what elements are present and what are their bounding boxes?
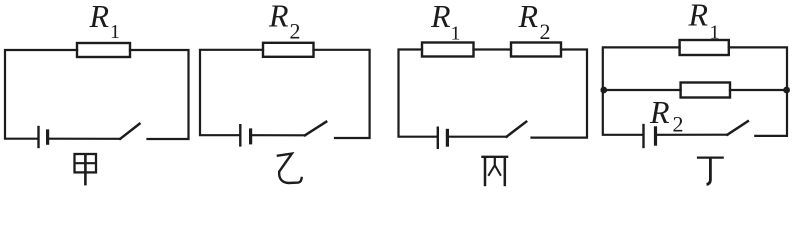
label ding (circuit4 caption) — [697, 158, 724, 185]
svg-text:R: R — [518, 0, 539, 34]
switch (circuit3) — [507, 122, 527, 137]
wire: circuit1 battery to switch pivot — [49, 138, 120, 140]
junction node right (circuit4) — [783, 87, 790, 94]
svg-text:R: R — [688, 0, 709, 33]
wire: circuit3 between resistors — [474, 48, 512, 50]
wire: circuit3 top-left + left side + bottom-left — [399, 50, 437, 137]
wire: circuit2 top-left + left side + bottom-left — [200, 50, 263, 135]
wire: circuit4 battery to switch pivot — [657, 134, 728, 136]
wire: circuit4 top-right + right side + bottom-right — [729, 47, 787, 135]
svg-text:R: R — [89, 0, 110, 34]
svg-text:2: 2 — [540, 19, 551, 44]
label R1 (circuit3) — [430, 0, 461, 45]
battery (circuit4) — [644, 125, 656, 147]
resistor R1 (circuit3) — [422, 43, 474, 57]
wire: circuit4 middle branch right — [730, 89, 787, 91]
junction node left (circuit4) — [600, 87, 607, 94]
svg-text:2: 2 — [673, 112, 684, 137]
resistor R2 (circuit3) — [511, 43, 561, 57]
wire: circuit1 top-left + left side + bottom-left — [5, 50, 77, 139]
switch (circuit2) — [305, 122, 326, 136]
label jia (circuit1 caption) — [75, 154, 97, 185]
wire: circuit4 middle branch left — [603, 89, 681, 91]
svg-text:1: 1 — [451, 23, 461, 45]
label yi (circuit2 caption) — [277, 154, 302, 183]
resistor R2 (circuit2) — [263, 43, 314, 57]
wire: circuit4 top-left + left side + bottom-left — [603, 47, 680, 134]
svg-text:R: R — [268, 0, 289, 34]
switch (circuit4) — [727, 121, 748, 135]
label bing (circuit3 caption) — [481, 157, 508, 186]
battery (circuit3) — [438, 128, 448, 148]
resistor R1 (circuit1) — [77, 43, 130, 57]
battery (circuit1) — [39, 127, 48, 147]
switch (circuit1) — [120, 124, 139, 139]
label R1 (circuit4) — [688, 0, 720, 44]
wire: circuit3 top-right + right side + bottom-right — [532, 50, 588, 138]
svg-text:1: 1 — [710, 22, 720, 44]
label R2 (circuit2) — [268, 0, 301, 44]
label R1 (circuit1) — [89, 0, 121, 43]
wire: circuit1 top-right + right side + bottom-right — [130, 50, 189, 139]
resistor R2 (circuit4 middle) — [681, 83, 730, 98]
battery (circuit2) — [240, 125, 250, 145]
svg-text:2: 2 — [290, 19, 301, 44]
svg-text:R: R — [430, 0, 451, 34]
wire: circuit2 battery to switch pivot — [252, 134, 305, 136]
resistor R1 (circuit4 top) — [680, 40, 729, 55]
label R2 (circuit4) — [649, 94, 684, 137]
wire: circuit2 top-right + right side + bottom-right — [314, 50, 370, 138]
svg-text:1: 1 — [110, 21, 120, 43]
label R2 (circuit3) — [518, 0, 551, 44]
wire: circuit3 battery to switch pivot — [449, 136, 507, 138]
svg-text:R: R — [649, 94, 670, 130]
